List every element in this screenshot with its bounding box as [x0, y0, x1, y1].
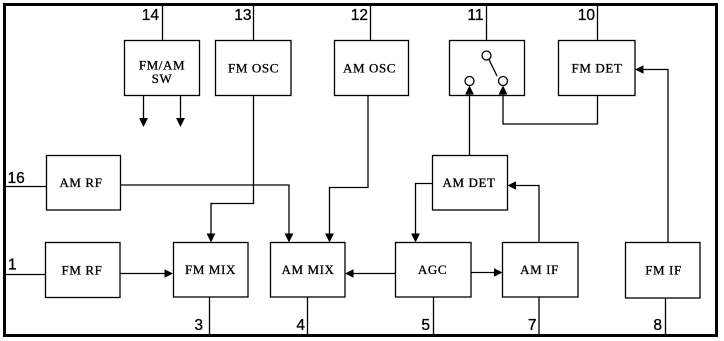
svg-text:8: 8 [653, 317, 662, 334]
svg-text:AM RF: AM RF [59, 175, 102, 190]
svg-text:AM OSC: AM OSC [343, 61, 396, 76]
switch lever [489, 60, 497, 77]
block AM DET [433, 156, 508, 211]
block FM MIX [174, 243, 249, 298]
svg-text:FM OSC: FM OSC [228, 61, 279, 76]
block AM OSC [335, 41, 409, 96]
svg-text:AGC: AGC [418, 262, 447, 277]
svg-text:7: 7 [528, 317, 537, 334]
FM/AM SW output arrow right [176, 96, 185, 128]
pin 4 lead wire [307, 297, 309, 334]
wire AM IF to AM DET [508, 181, 540, 242]
svg-text:1: 1 [8, 257, 17, 274]
block FM OSC [216, 41, 292, 96]
FM/AM SW output arrow left [139, 96, 148, 128]
block FM RF [46, 243, 121, 298]
pin 13 lead wire [253, 6, 255, 41]
block AM MIX [271, 243, 346, 298]
pin 3 lead wire [209, 297, 211, 334]
block AM IF [503, 243, 579, 298]
svg-text:13: 13 [234, 7, 251, 24]
wire FM OSC to FM MIX [207, 96, 254, 243]
svg-text:FM RF: FM RF [62, 263, 103, 278]
switch common contact circle [482, 51, 491, 60]
pin 5 lead wire [433, 297, 435, 334]
wire AM RF to AM MIX [121, 185, 294, 243]
block FM DET [559, 41, 636, 96]
svg-text:FM DET: FM DET [572, 61, 623, 76]
switch AM contact circle [465, 77, 474, 86]
wire FM DET to switch FM contact [499, 86, 598, 125]
svg-text:16: 16 [8, 170, 25, 187]
pin 10 lead wire [597, 6, 599, 41]
svg-text:14: 14 [142, 7, 160, 24]
svg-text:4: 4 [296, 317, 305, 334]
svg-text:AM IF: AM IF [520, 262, 559, 277]
block FM IF [626, 243, 701, 299]
pin 11 lead wire [486, 6, 488, 41]
block FM/AM SW [125, 41, 200, 96]
wire AM DET to switch AM contact [465, 86, 474, 156]
svg-text:FM MIX: FM MIX [185, 262, 236, 277]
block AGC [396, 243, 472, 298]
block switch U1 [450, 41, 525, 96]
wire FM IF to FM DET [635, 65, 668, 242]
pin 1 lead wire [6, 274, 46, 276]
pin 12 lead wire [370, 6, 372, 41]
svg-text:12: 12 [351, 7, 368, 24]
svg-text:FM IF: FM IF [645, 263, 682, 278]
svg-text:3: 3 [194, 317, 203, 334]
pin 7 lead wire [538, 297, 540, 334]
svg-text:AM MIX: AM MIX [281, 262, 334, 277]
switch FM contact circle [499, 77, 508, 86]
pin 16 lead wire [6, 186, 47, 188]
wire AM DET to AGC [411, 184, 432, 243]
wire AGC to AM MIX [345, 269, 396, 277]
wire FM RF to FM MIX [120, 269, 173, 277]
block AM RF [47, 156, 121, 211]
svg-text:11: 11 [467, 7, 483, 24]
svg-text:10: 10 [578, 7, 596, 24]
svg-text:5: 5 [421, 317, 430, 334]
svg-text:SW: SW [152, 71, 173, 86]
svg-text:AM DET: AM DET [442, 175, 495, 190]
pin 14 lead wire [162, 6, 164, 41]
wire AM OSC to AM MIX [325, 96, 368, 243]
pin 8 lead wire [665, 298, 667, 334]
wire AGC to AM IF [471, 268, 503, 276]
